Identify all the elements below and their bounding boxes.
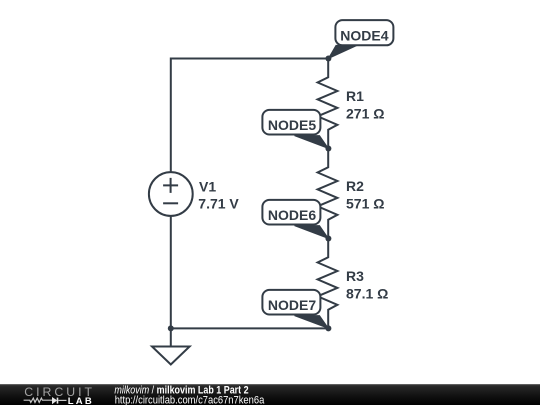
svg-text:R2: R2 [346, 178, 364, 194]
svg-text:87.1 Ω: 87.1 Ω [346, 286, 388, 302]
wire left vertical lower [170, 217, 172, 329]
footer bar [0, 384, 540, 405]
node dot top at NODE4 junction [325, 56, 331, 62]
svg-text:7.71 V: 7.71 V [198, 196, 239, 212]
node dot NODE5 junction [325, 146, 331, 152]
voltage source V1 [149, 172, 193, 216]
svg-text:NODE6: NODE6 [268, 207, 316, 223]
node dot NODE7 junction [325, 325, 331, 331]
svg-text:http://circuitlab.com/c7ac67n7: http://circuitlab.com/c7ac67n7ken6a [115, 394, 265, 405]
node flag NODE5 [262, 110, 328, 149]
wire top horizontal and left vertical upper [171, 59, 329, 173]
svg-text:NODE7: NODE7 [268, 297, 316, 313]
svg-text:NODE4: NODE4 [340, 27, 388, 43]
junction dot ground [168, 325, 174, 331]
svg-text:271 Ω: 271 Ω [346, 106, 384, 122]
svg-text:R3: R3 [346, 268, 364, 284]
node flag NODE6 [262, 200, 328, 239]
resistor R1 [318, 59, 338, 149]
svg-text:571 Ω: 571 Ω [346, 196, 384, 212]
svg-text:V1: V1 [199, 179, 216, 195]
resistor R2 [318, 149, 338, 239]
node dot NODE6 junction [325, 236, 331, 242]
node flag NODE7 [262, 290, 328, 329]
svg-text:R1: R1 [346, 88, 364, 104]
resistor R3 [318, 239, 338, 329]
logo resistor-diode glyph [24, 398, 67, 404]
svg-text:LAB: LAB [68, 396, 94, 405]
node flag NODE4 [328, 20, 393, 58]
svg-text:NODE5: NODE5 [268, 117, 316, 133]
ground [152, 328, 190, 364]
wire bottom horizontal [171, 327, 329, 329]
